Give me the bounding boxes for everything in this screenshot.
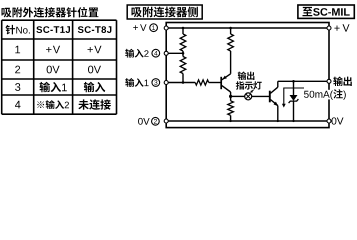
pin 2 terminal (0V left): [164, 119, 168, 123]
wire: Q2 collector to output line: [277, 81, 279, 87]
table title: 吸附外连接器针位置: [2, 7, 99, 18]
table row 3: 输入1 输入: [15, 83, 20, 91]
output indicator lamp: [245, 93, 252, 100]
wire: node to indicator lamp: [231, 95, 245, 97]
table row 1: +V +V: [15, 46, 20, 54]
leader arrow from label to lamp: [250, 90, 253, 93]
+V terminal (right): [327, 26, 331, 30]
wire: input1 line (pin3): [166, 82, 195, 84]
wire: +V rail: [166, 27, 329, 29]
label +V pin1: [133, 24, 146, 31]
table row 4: ※输入2 未连接: [15, 101, 21, 109]
resistor R4 (series, input1): [195, 80, 209, 85]
label 输入1 pin3: [125, 78, 148, 87]
node: Q1 collector / lamp / R5 junction: [229, 95, 232, 98]
0V terminal (right): [327, 119, 331, 123]
resistor R5 (node to 0V): [228, 96, 234, 121]
label 0V pin2: [138, 118, 150, 125]
outer loop wire (connector-to-connector rectangle): [166, 23, 329, 128]
label 输入2 pin4: [125, 49, 148, 58]
junction dot R5 bottom: [230, 120, 232, 122]
resistor R1 (+V to pin4 line): [180, 28, 186, 53]
label box: 吸附连接器侧: [127, 5, 202, 19]
label +V (right): [334, 24, 349, 31]
resistor R3 (+V to Q1 emitter): [228, 28, 234, 74]
junction dot R2 bottom: [182, 81, 185, 84]
wire: input2 line (pin4): [166, 52, 183, 54]
wire: lamp to Q2 base: [252, 95, 270, 97]
pin table grid: [2, 20, 117, 114]
wire: Q2 emitter to 0V rail: [277, 106, 279, 121]
wire: 0V rail: [166, 120, 329, 122]
wire: Q1 collector down to node: [230, 92, 232, 96]
pin 3 terminal (input1): [164, 81, 168, 85]
diode D1 (protection, output to 0V): [289, 81, 299, 121]
wire: R4 to Q1 base: [209, 82, 221, 84]
table row 2: 0V 0V: [15, 66, 20, 74]
50mA note leader arrow: [282, 88, 304, 108]
wire: output line: [278, 80, 329, 82]
label: 输出指示灯: [238, 72, 255, 81]
junction dot Q2 emitter at 0V: [277, 120, 279, 122]
pin 4 terminal (input2): [164, 51, 168, 55]
pin 1 terminal (+V left): [164, 26, 168, 30]
label box: 至SC-MIL: [298, 5, 354, 18]
transistor Q2 (NPN output): [270, 87, 278, 106]
resistor R2 (pin4 line to pin3 line): [180, 53, 186, 82]
junction dot D1 top: [292, 80, 295, 83]
table header 针No. | SC-T1J | SC-T8J: [6, 25, 30, 35]
label 输出 (right): [333, 77, 352, 87]
label 0V (right): [332, 117, 344, 124]
junction dot R3 top: [229, 27, 232, 30]
transistor Q1 (PNP): [221, 74, 230, 92]
output terminal (right): [327, 79, 331, 83]
junction dot D1 bottom: [292, 120, 294, 122]
label 50mA(注): [303, 90, 348, 100]
junction dot R1 top: [182, 27, 185, 30]
junction dot R1 bottom: [182, 52, 185, 55]
